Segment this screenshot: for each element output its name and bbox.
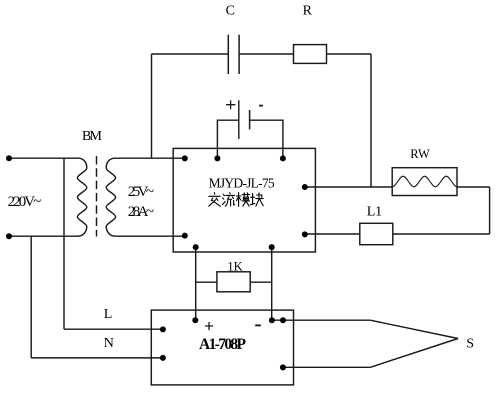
svg-text:1K: 1K bbox=[227, 259, 242, 273]
battery positive lead bbox=[217, 120, 238, 158]
svg-text:R: R bbox=[303, 4, 313, 19]
label 25V~ bbox=[128, 184, 154, 200]
wire resistor R to right drop bbox=[327, 53, 372, 55]
svg-text:28A~: 28A~ bbox=[128, 204, 154, 220]
wire module to RW bbox=[305, 186, 392, 188]
wire RW to right edge bbox=[457, 186, 490, 188]
node A1-708P pin L bbox=[160, 326, 166, 332]
svg-text:C: C bbox=[226, 4, 235, 19]
label L bbox=[104, 307, 113, 322]
label 1K bbox=[227, 259, 242, 273]
node module pin battery minus bbox=[280, 155, 286, 161]
wire L tap vertical bbox=[63, 158, 65, 329]
wire module to L1 bbox=[305, 233, 360, 235]
label RW bbox=[410, 147, 430, 161]
node 220V bottom terminal bbox=[6, 233, 12, 239]
transformer BM core bbox=[96, 156, 98, 237]
rheostat RW element bbox=[392, 176, 457, 187]
wire capacitor to resistor R bbox=[239, 53, 293, 55]
wire L horizontal to A1-708P bbox=[64, 328, 163, 330]
svg-text:BM: BM bbox=[82, 129, 103, 144]
wire secondary top to module bbox=[115, 157, 185, 159]
svg-text:MJYD-JL-75: MJYD-JL-75 bbox=[209, 176, 275, 191]
label 220V~ bbox=[8, 194, 42, 210]
node module pin bottom left bbox=[193, 244, 199, 250]
node A1-708P pin probe top bbox=[280, 317, 286, 323]
node module pin secondary bottom bbox=[182, 233, 188, 239]
svg-text:220V~: 220V~ bbox=[8, 194, 42, 210]
svg-text:L: L bbox=[104, 307, 113, 322]
wire left vertical from capacitor branch bbox=[151, 54, 153, 158]
wire L1 right bbox=[393, 233, 490, 235]
wire module bottom left drop bbox=[195, 247, 197, 320]
transformer BM secondary winding bbox=[106, 158, 115, 236]
resistor R bbox=[294, 45, 327, 64]
label S bbox=[466, 337, 474, 352]
transformer BM primary winding bbox=[77, 158, 86, 236]
wire N horizontal to A1-708P bbox=[31, 357, 163, 359]
battery negative lead bbox=[250, 120, 283, 158]
svg-text:S: S bbox=[466, 337, 474, 352]
module MJYD-JL-75 box bbox=[173, 148, 315, 252]
label A1-708P bbox=[199, 336, 247, 353]
label battery plus sign bbox=[226, 100, 235, 109]
label A1-708P plus sign bbox=[205, 322, 213, 330]
wire 220V bottom terminal to primary bbox=[9, 235, 78, 237]
svg-text:A1-708P: A1-708P bbox=[199, 336, 247, 353]
label L1 bbox=[367, 204, 382, 219]
wire secondary bottom to module bbox=[115, 235, 185, 237]
node 220V top terminal bbox=[6, 155, 12, 161]
wire probe bottom diagonal bbox=[370, 339, 458, 368]
label A1-708P minus sign bbox=[255, 324, 261, 326]
node module pin battery plus bbox=[214, 155, 220, 161]
svg-text:RW: RW bbox=[410, 147, 430, 161]
label battery minus sign bbox=[259, 105, 263, 107]
resistor 1K right lead bbox=[250, 281, 272, 283]
svg-text:N: N bbox=[104, 336, 114, 351]
wire top-left to capacitor bbox=[152, 53, 229, 55]
wire N tap vertical bbox=[30, 236, 32, 358]
module A1-708P box bbox=[151, 310, 293, 385]
capacitor C bbox=[228, 35, 239, 74]
wire A1-708P bottom to probe bbox=[283, 366, 370, 368]
wire A1-708P minus to probe top bbox=[272, 319, 371, 321]
node A1-708P pin minus bbox=[269, 317, 275, 323]
wire probe top diagonal bbox=[370, 320, 458, 338]
label 28A~ bbox=[128, 204, 154, 220]
label N bbox=[104, 336, 114, 351]
wire right vertical drop to RW line bbox=[370, 54, 372, 187]
label BM bbox=[82, 129, 103, 144]
svg-text:25V~: 25V~ bbox=[128, 184, 154, 200]
node module pin bottom right bbox=[269, 244, 275, 250]
inductor L1 box bbox=[360, 223, 393, 244]
resistor 1K box bbox=[217, 272, 250, 292]
wire right edge vertical bbox=[489, 187, 491, 234]
battery cell bbox=[239, 100, 250, 139]
label C bbox=[226, 4, 235, 19]
node A1-708P pin plus bbox=[192, 317, 198, 323]
resistor 1K left lead bbox=[196, 281, 217, 283]
label AC module Chinese text bbox=[209, 193, 263, 207]
rheostat RW box bbox=[392, 168, 457, 196]
svg-text:L1: L1 bbox=[367, 204, 382, 219]
label R bbox=[303, 4, 313, 19]
wire 220V top terminal to primary bbox=[9, 157, 78, 159]
node A1-708P pin N bbox=[160, 355, 166, 361]
node module pin RW bbox=[302, 184, 308, 190]
node module pin L1 bbox=[302, 231, 308, 237]
node A1-708P pin probe bottom bbox=[280, 364, 286, 370]
wire module bottom right drop bbox=[271, 247, 273, 320]
label MJYD-JL-75 bbox=[209, 176, 275, 191]
node module pin secondary top bbox=[182, 155, 188, 161]
